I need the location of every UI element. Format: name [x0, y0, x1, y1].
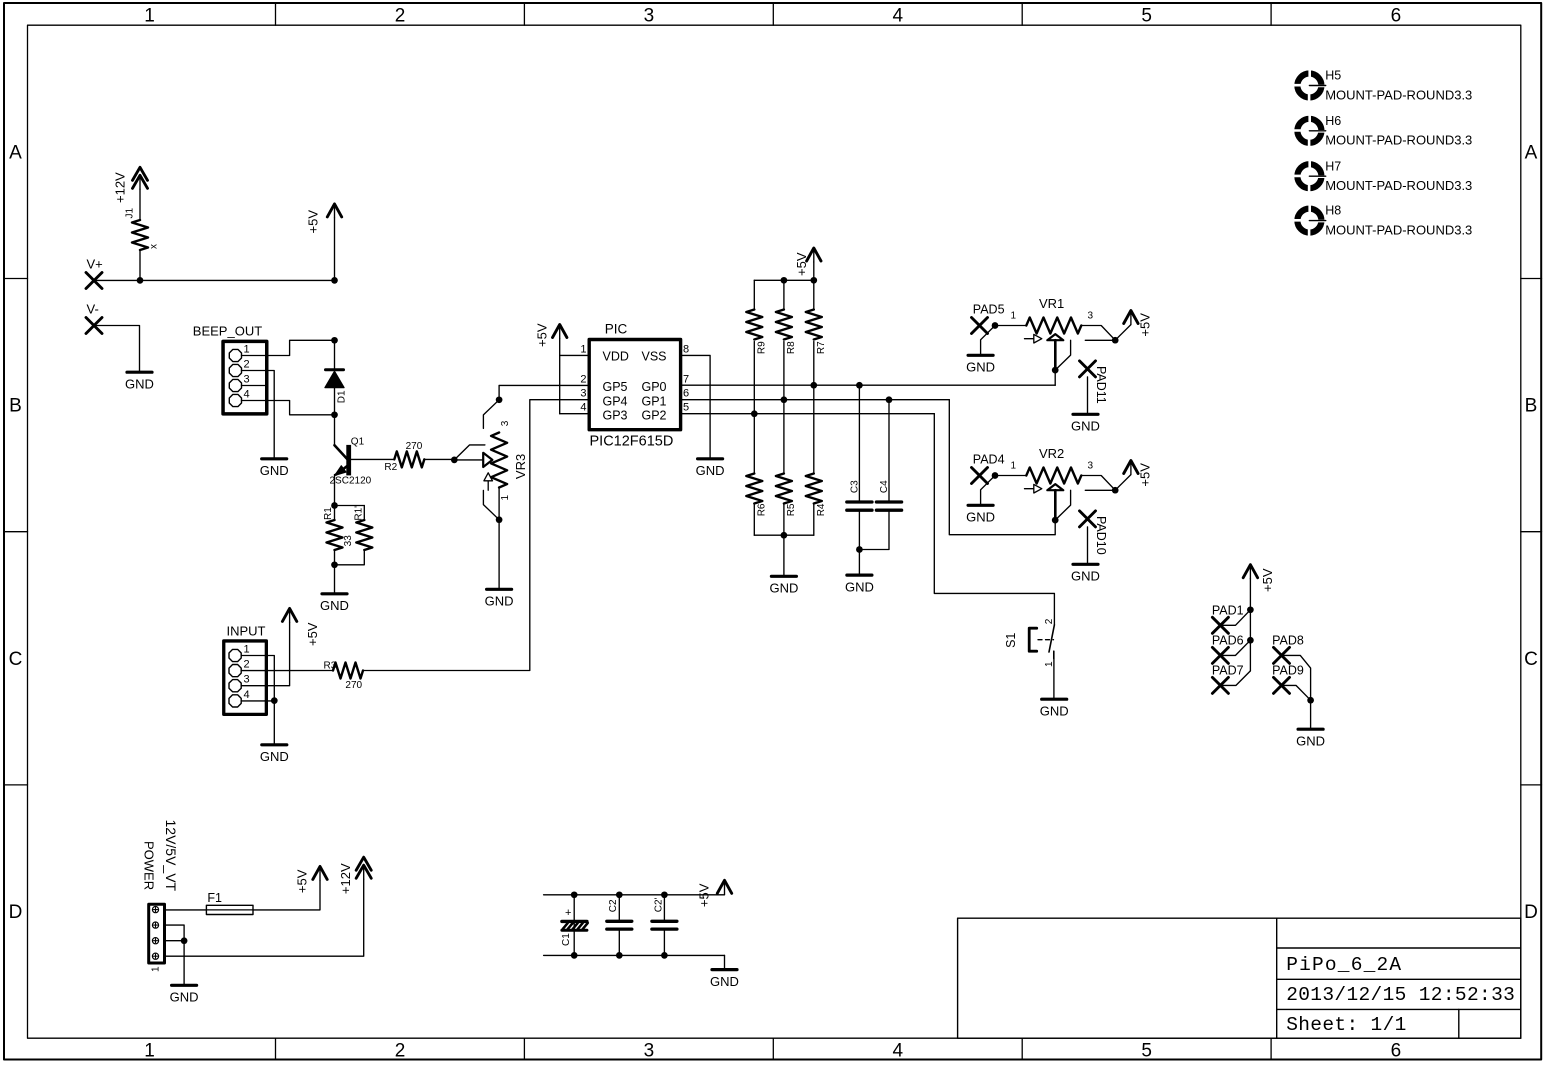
svg-text:7: 7: [683, 373, 689, 385]
wire +5V rail of cap group: [544, 894, 725, 896]
junction R1 bottom node: [331, 561, 338, 568]
svg-text:3: 3: [1088, 461, 1094, 472]
INPUT pin 4: [229, 695, 241, 707]
wire C3 upper: [858, 385, 860, 502]
svg-text:GND: GND: [966, 510, 995, 525]
junction VR3 wiper node: [451, 457, 458, 464]
ground GND at PAD4: [968, 504, 993, 507]
junction R1 top node: [331, 502, 338, 509]
vr3 wiper triangle: [483, 453, 492, 467]
power +5V symbol at PIC: [553, 325, 567, 338]
title block vertical divider: [1276, 918, 1278, 1038]
wire PAD7 to node: [1220, 671, 1250, 686]
svg-text:R9: R9: [757, 341, 768, 354]
wire R6 bottom: [753, 504, 755, 536]
wire PAD6 node down: [1249, 640, 1251, 671]
svg-text:1: 1: [244, 344, 250, 356]
ground GND below C3: [847, 573, 872, 576]
svg-text:V+: V+: [87, 257, 103, 272]
svg-text:C4: C4: [879, 480, 890, 493]
terminal V+: [86, 273, 102, 289]
svg-text:1: 1: [144, 1041, 155, 1062]
svg-text:6: 6: [683, 388, 689, 400]
svg-text:+5V: +5V: [794, 252, 809, 276]
svg-text:PAD7: PAD7: [1212, 664, 1244, 678]
svg-text:Q1: Q1: [351, 436, 365, 447]
junction rail C2': [661, 891, 668, 898]
svg-text:R7: R7: [816, 341, 827, 354]
resistor R5: [776, 474, 792, 504]
frame column dividers top: [275, 3, 277, 25]
svg-text:4: 4: [893, 1041, 904, 1062]
svg-text:C2': C2': [653, 897, 664, 912]
resistor R2: [394, 451, 424, 467]
svg-text:1: 1: [500, 495, 511, 501]
svg-text:GND: GND: [170, 990, 199, 1005]
svg-text:INPUT: INPUT: [227, 624, 266, 639]
wire +5V node diagonal: [1115, 325, 1131, 341]
wire C3 lower: [858, 510, 860, 549]
svg-text:GP1: GP1: [641, 394, 666, 408]
svg-text:D: D: [9, 902, 23, 923]
wire S1 to ground: [1053, 658, 1055, 698]
vr1 wiper arrow: [1025, 338, 1035, 340]
wire VR1 pin3 to +5V node: [1081, 326, 1115, 341]
svg-text:+12V: +12V: [112, 172, 127, 203]
wire cap group rail to ground: [724, 955, 726, 969]
svg-text:PiPo_6_2A: PiPo_6_2A: [1286, 954, 1402, 976]
vr3 bottom pin hook: [483, 490, 499, 519]
svg-text:C: C: [9, 649, 23, 670]
wire +5V down to rail: [334, 218, 336, 281]
BEEP_OUT pin 3: [229, 379, 241, 391]
svg-text:B: B: [9, 396, 22, 417]
svg-text:+5V: +5V: [1137, 313, 1152, 337]
wire INPUT pin4 to node: [265, 700, 274, 702]
power +5V symbol at cap group: [717, 880, 731, 893]
POWER pin 2: [152, 922, 158, 928]
BEEP_OUT pin 2: [229, 364, 241, 376]
trimmer VR1: [1026, 318, 1081, 334]
svg-text:R1': R1': [354, 506, 365, 521]
resistor R7: [806, 310, 822, 340]
wire PAD6 to node: [1220, 640, 1250, 655]
capacitor C2: [607, 920, 632, 923]
svg-text:MOUNT-PAD-ROUND3.3: MOUNT-PAD-ROUND3.3: [1325, 133, 1472, 148]
svg-text:POWER: POWER: [142, 841, 157, 890]
svg-text:H6: H6: [1325, 114, 1341, 128]
wire PAD10 to ground: [1087, 527, 1089, 564]
svg-text:12V/5V_VT: 12V/5V_VT: [163, 820, 179, 892]
svg-text:PAD8: PAD8: [1272, 634, 1304, 648]
junction rail R7: [810, 277, 817, 284]
switch S1 actuator: [1029, 628, 1037, 651]
svg-text:4: 4: [893, 5, 904, 26]
svg-text:Sheet: 1/1: Sheet: 1/1: [1286, 1014, 1407, 1036]
wire R1 node to ground: [334, 565, 336, 594]
junction PAD6 node: [1247, 637, 1254, 644]
wire bus3 drop to S1: [934, 414, 1054, 625]
svg-text:+5V: +5V: [535, 323, 550, 347]
pad PAD8 terminal: [1274, 647, 1290, 663]
wire R3 to PIC GP4: [363, 400, 589, 671]
svg-text:V-: V-: [87, 302, 99, 317]
wire R9 to bus3: [753, 342, 755, 414]
capacitor C2': [652, 920, 677, 923]
svg-text:H8: H8: [1325, 204, 1341, 218]
INPUT pin 2: [229, 665, 241, 677]
connector BEEP_OUT body: [223, 341, 267, 414]
junction VR1 +5V node: [1112, 337, 1119, 344]
wire BEEP_OUT pin2 to ground: [267, 371, 274, 459]
junction V+ rail / +5V line: [331, 277, 338, 284]
svg-text:3: 3: [644, 5, 655, 26]
svg-text:2: 2: [1044, 618, 1055, 624]
wire R8 to bus2: [783, 342, 785, 400]
svg-text:1: 1: [1044, 661, 1055, 667]
svg-text:B: B: [1525, 396, 1538, 417]
svg-text:GP2: GP2: [641, 409, 666, 423]
svg-text:H7: H7: [1325, 159, 1341, 173]
svg-text:5: 5: [1141, 1041, 1152, 1062]
title block outline: [958, 918, 1521, 1038]
switch S1 lever: [1049, 625, 1054, 652]
svg-text:2: 2: [244, 659, 250, 671]
wire C1 lower: [573, 930, 575, 955]
svg-text:2SC2120: 2SC2120: [330, 476, 372, 487]
svg-text:D1: D1: [337, 390, 348, 403]
svg-text:1: 1: [151, 966, 162, 972]
svg-text:+5V: +5V: [1137, 463, 1152, 487]
ground GND for PIC: [698, 457, 723, 460]
svg-text:1: 1: [244, 644, 250, 656]
wire POWER pin4 to +12V: [166, 879, 364, 956]
vr2 wiper arrow: [1025, 488, 1035, 490]
svg-text:D: D: [1524, 902, 1538, 923]
wire POWER ground node down: [183, 941, 185, 985]
wire R5 bottom: [783, 504, 785, 536]
wire C2' upper: [663, 895, 665, 920]
svg-text:S1: S1: [1004, 633, 1018, 648]
wire diode node to Q1 collector: [334, 415, 336, 446]
wire +5V line to diode D1: [334, 340, 336, 370]
wire VR1 wiper shaft: [1054, 340, 1057, 370]
mount pad H8: [1293, 204, 1326, 237]
vr1 wiper triangle: [1047, 334, 1063, 340]
power +12V symbol at POWER: [356, 857, 371, 870]
wire PAD4 node to VR2 pin1: [995, 475, 1026, 477]
connector POWER body: [149, 904, 165, 963]
wire PAD9 to ground node: [1282, 685, 1311, 700]
svg-text:C2: C2: [608, 899, 619, 912]
wire ground rail of cap group: [544, 954, 725, 956]
svg-text:PAD11: PAD11: [1094, 366, 1108, 404]
power +5V symbol at VR2: [1124, 461, 1138, 474]
svg-text:GND: GND: [1040, 703, 1069, 718]
resistor R1: [327, 520, 343, 550]
POWER pin 4: [152, 953, 158, 959]
junction VR2 wiper node: [1052, 517, 1059, 524]
pad PAD1 terminal: [1212, 617, 1228, 633]
svg-text:PIC12F615D: PIC12F615D: [590, 434, 674, 450]
ic PIC body: [589, 340, 680, 430]
svg-text:4: 4: [244, 389, 250, 401]
svg-text:VR2: VR2: [1039, 446, 1064, 461]
svg-text:4: 4: [244, 689, 250, 701]
svg-text:GND: GND: [1296, 733, 1325, 748]
junction rail R8: [781, 277, 788, 284]
wire bank bottom rail: [754, 534, 814, 536]
wire R1 lower stub: [334, 550, 336, 565]
svg-text:3: 3: [500, 420, 511, 426]
junction VR3 top node: [496, 396, 503, 403]
pad PAD10 terminal: [1080, 511, 1096, 527]
svg-text:6: 6: [1391, 1041, 1402, 1062]
pad PAD4 terminal: [972, 468, 988, 484]
svg-text:GND: GND: [845, 579, 874, 594]
svg-text:VDD: VDD: [603, 350, 629, 364]
junction POWER ground node: [181, 937, 188, 944]
vr1 wiper pin hook: [1055, 340, 1070, 370]
svg-text:1: 1: [580, 343, 586, 355]
wire PAD5 node to VR1 pin1: [995, 325, 1026, 327]
svg-text:+5V: +5V: [294, 869, 309, 893]
wire +5V to PAD1 node: [1249, 579, 1251, 610]
svg-text:J1: J1: [125, 208, 136, 219]
pad PAD6 terminal: [1212, 647, 1228, 663]
wire PAD1 node to PAD6 node: [1249, 610, 1251, 640]
svg-text:GND: GND: [696, 463, 725, 478]
wire bus3 GP2 net: [681, 413, 935, 415]
wire bus2 drop to VR2: [949, 400, 1055, 535]
junction rail C1: [571, 891, 578, 898]
wire PIC GP5 to VR3 top: [499, 385, 589, 399]
junction bus1 R7/R4: [810, 382, 817, 389]
wire R4 bottom: [813, 504, 815, 536]
junction PAD1 node: [1247, 606, 1254, 613]
wire VR1 wiper node to bus1: [1054, 370, 1056, 385]
svg-text:C: C: [1524, 649, 1538, 670]
resistor R9: [746, 310, 762, 340]
wire R1 top link: [335, 505, 365, 507]
svg-text:1: 1: [144, 5, 155, 26]
resistor J1: [132, 220, 148, 250]
wire +5V arrow to rail: [813, 262, 815, 280]
wire +5V vertical by PIC: [559, 339, 561, 414]
capacitor C4: [876, 500, 901, 503]
svg-text:2: 2: [244, 359, 250, 371]
svg-text:PAD4: PAD4: [973, 453, 1005, 467]
svg-text:GND: GND: [1071, 419, 1100, 434]
svg-text:GND: GND: [260, 463, 289, 478]
capacitor C3: [847, 500, 872, 503]
junction rail C2: [616, 891, 623, 898]
svg-text:GND: GND: [320, 598, 349, 613]
mount pad H7: [1293, 160, 1326, 193]
svg-text:8: 8: [683, 343, 689, 355]
connector INPUT body: [224, 641, 267, 714]
svg-text:5: 5: [683, 402, 689, 414]
wire INPUT pin1 down to pin4 node: [265, 656, 274, 701]
switch S1 lower contact: [1053, 651, 1055, 658]
ground GND below R1: [322, 592, 347, 595]
svg-text:2013/12/15 12:52:33: 2013/12/15 12:52:33: [1286, 984, 1515, 1006]
wire VR3 resistor bottom: [498, 488, 500, 520]
wire +5V rail of bank: [754, 279, 814, 281]
wire VR1 stub under resistor: [1085, 339, 1115, 341]
svg-text:R1: R1: [323, 507, 334, 520]
junction PAD9 ground node: [1307, 697, 1314, 704]
power +5V symbol at pad cluster: [1243, 565, 1257, 578]
frame row dividers left: [4, 278, 28, 280]
wire POWER pin2 to ground node: [166, 925, 184, 941]
svg-text:+5V: +5V: [697, 883, 712, 907]
svg-text:R3: R3: [324, 661, 337, 672]
wire R7 to bus1: [813, 342, 815, 386]
wire J1 to V+ rail: [139, 250, 141, 280]
svg-text:PAD1: PAD1: [1212, 604, 1244, 618]
INPUT pin 3: [229, 680, 241, 692]
svg-text:6: 6: [1391, 5, 1402, 26]
junction bus2 C4: [886, 396, 893, 403]
svg-text:x: x: [148, 244, 159, 249]
wire +12V to J1: [139, 189, 141, 220]
fuse F1: [206, 905, 253, 914]
wire PAD8 to ground node: [1282, 655, 1311, 700]
wire PIC VDD pin1 to +5V: [560, 354, 590, 356]
trimmer VR3: [491, 433, 507, 488]
wire R7 column upper: [813, 280, 815, 309]
wire wiper hook stub upper: [454, 445, 485, 460]
junction INPUT ground node: [271, 697, 278, 704]
svg-text:MOUNT-PAD-ROUND3.3: MOUNT-PAD-ROUND3.3: [1325, 222, 1472, 237]
wire Q1 base to R2: [351, 458, 395, 460]
wire BEEP_OUT pin4 to diode node: [267, 401, 335, 415]
wire +5V node diagonal: [1115, 475, 1131, 491]
ground GND at PAD5: [968, 354, 993, 357]
junction ground rail C2': [661, 952, 668, 959]
svg-text:2: 2: [580, 373, 586, 385]
resistor R3: [333, 663, 363, 679]
junction bus2 R8/R5: [781, 396, 788, 403]
terminal V-: [86, 318, 102, 334]
wire bus1 GP0 net: [681, 384, 1056, 386]
svg-text:GP3: GP3: [603, 409, 628, 423]
junction ground rail C1: [571, 952, 578, 959]
svg-text:GND: GND: [125, 376, 154, 391]
wire C2' lower: [663, 931, 665, 956]
wire R4 column upper: [813, 385, 815, 473]
ground GND for INPUT: [262, 743, 287, 746]
resistor R1': [356, 520, 372, 550]
INPUT pin 1: [229, 649, 241, 661]
wire C2 upper: [618, 895, 620, 920]
pad PAD7 terminal: [1212, 677, 1228, 693]
title block sheet cell divider: [1458, 1009, 1460, 1038]
junction bus1 C3: [856, 382, 863, 389]
wire VR2 pin3 to +5V node: [1081, 476, 1115, 491]
resistor R8: [776, 310, 792, 340]
svg-text:R5: R5: [786, 503, 797, 516]
wire wiper node to VR3 wiper: [454, 459, 483, 461]
svg-text:A: A: [9, 143, 22, 164]
svg-text:270: 270: [406, 441, 423, 452]
pad PAD9 terminal: [1274, 677, 1290, 693]
svg-text:3: 3: [1088, 311, 1094, 322]
svg-text:R4: R4: [816, 503, 827, 516]
title block row lines: [1277, 947, 1521, 949]
svg-text:VSS: VSS: [641, 350, 666, 364]
mount pad H6: [1293, 114, 1326, 147]
wire PAD5 to ground: [981, 326, 995, 356]
wire VR2 wiper shaft: [1054, 490, 1057, 520]
junction J1/V+ rail: [137, 277, 144, 284]
vr3 top pin hook: [483, 400, 499, 429]
svg-text:MOUNT-PAD-ROUND3.3: MOUNT-PAD-ROUND3.3: [1325, 87, 1472, 102]
mount pad H5: [1293, 69, 1326, 102]
svg-text:3: 3: [244, 374, 250, 386]
wire R1 upper stub: [334, 506, 336, 521]
svg-text:+5V: +5V: [305, 622, 320, 646]
wire C4 lower: [859, 510, 889, 549]
wire PAD1 to node: [1220, 610, 1250, 626]
svg-text:C1: C1: [561, 933, 572, 946]
BEEP_OUT pin 4: [229, 394, 241, 406]
svg-text:PAD6: PAD6: [1212, 634, 1244, 648]
power +5V symbol at bank: [807, 248, 821, 261]
wire INPUT pin2 to R3: [265, 670, 333, 672]
svg-text:MOUNT-PAD-ROUND3.3: MOUNT-PAD-ROUND3.3: [1325, 178, 1472, 193]
ground GND below bank: [771, 575, 796, 578]
svg-text:GP5: GP5: [603, 380, 628, 394]
ground GND at PAD10: [1073, 563, 1098, 566]
wire R8 column upper: [783, 280, 785, 309]
pad PAD5 terminal: [972, 318, 988, 334]
wire V- to ground: [94, 326, 140, 372]
junction VR2 +5V node: [1112, 487, 1119, 494]
wire INPUT pin3 to +5V: [265, 622, 290, 685]
wire C3 node to ground: [858, 550, 860, 575]
svg-text:GND: GND: [485, 594, 514, 609]
capacitor C1: [562, 920, 587, 923]
diode D1: [326, 368, 344, 371]
junction C3/C4 bottom: [856, 546, 863, 553]
svg-text:C3: C3: [850, 480, 861, 493]
svg-text:R6: R6: [757, 503, 768, 516]
vr2 wiper pin hook: [1055, 490, 1070, 520]
svg-text:1: 1: [1011, 461, 1017, 472]
svg-text:2: 2: [395, 5, 406, 26]
POWER pin 3: [152, 938, 158, 944]
wire fuse to +5V: [253, 880, 320, 910]
svg-text:1: 1: [1011, 311, 1017, 322]
svg-text:PIC: PIC: [605, 322, 628, 337]
power +12V symbol top-left: [133, 167, 148, 180]
wire V+ rail: [94, 279, 335, 281]
svg-text:F1: F1: [207, 891, 222, 905]
svg-text:GND: GND: [966, 360, 995, 375]
svg-text:GND: GND: [260, 749, 289, 764]
wire R6 column upper: [753, 414, 755, 474]
frame column dividers bottom: [275, 1038, 277, 1059]
ground GND at PAD11: [1073, 413, 1098, 416]
wire INPUT node to ground: [273, 701, 275, 745]
svg-text:A: A: [1525, 143, 1538, 164]
wire Q1 emitter to R1 node: [334, 475, 336, 506]
wire R1' upper stub: [363, 506, 365, 521]
svg-text:VR3: VR3: [513, 454, 528, 479]
resistor R4: [806, 474, 822, 504]
